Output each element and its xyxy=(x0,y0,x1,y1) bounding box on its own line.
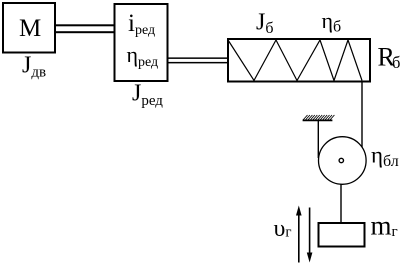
svg-text:M: M xyxy=(19,15,41,42)
